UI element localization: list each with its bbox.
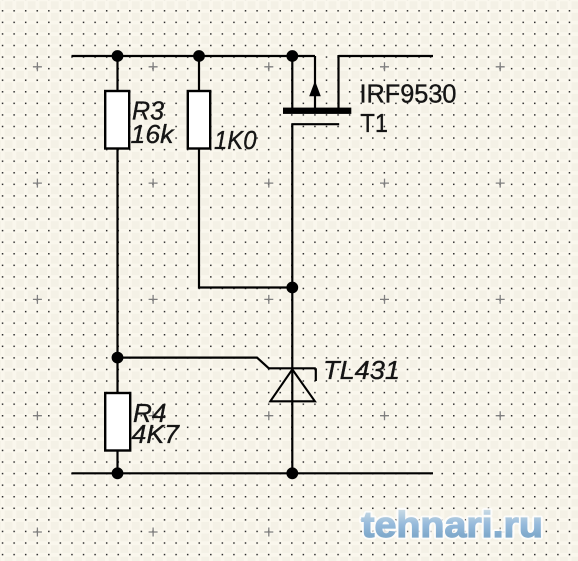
svg-text:T1: T1 (361, 108, 389, 138)
T1 channel bar (283, 108, 351, 114)
node dot top rail R3 (112, 50, 124, 62)
wire drain output horizontal (339, 55, 434, 57)
TL431 cathode bar (269, 367, 316, 369)
svg-text:tehnari.ru: tehnari.ru (361, 504, 543, 545)
T1 substrate arrow (309, 81, 321, 96)
wire R4 bottom lead (116, 450, 118, 473)
wire 1K0 top lead (198, 56, 200, 92)
TL431 cathode hook (315, 368, 317, 381)
svg-text:IRF9530: IRF9530 (360, 79, 457, 109)
node dot top rail 1K0 (193, 50, 205, 62)
wire R3 bottom lead down to node (116, 148, 118, 394)
node dot top rail T1 (286, 50, 298, 62)
resistor R3 (105, 91, 129, 149)
wire bottom return rail (72, 472, 434, 474)
node dot reference junction (112, 352, 124, 364)
wire T1 left stub (291, 56, 293, 108)
wire R3 top lead (116, 56, 118, 92)
resistor 1K0 body (188, 91, 210, 149)
node dot bottom rail R4 (112, 467, 124, 479)
svg-text:16k: 16k (131, 119, 176, 149)
node dot gate junction (286, 282, 298, 294)
wire T1 drain stub (337, 55, 339, 108)
wire T1 source stub (314, 56, 316, 108)
resistor R4 (105, 393, 130, 451)
svg-text:TL431: TL431 (323, 355, 400, 385)
wire gate vertical down to TL431 and bottom rail (291, 124, 293, 473)
T1 gate line (291, 123, 339, 125)
wire top supply rail (72, 55, 316, 57)
svg-text:1K0: 1K0 (214, 125, 257, 155)
transistor Q T1 IRF9530 (283, 55, 351, 124)
TL431 triangle (270, 369, 315, 401)
wire 1K0 bottom lead (199, 148, 292, 288)
wire TL431 reference line (118, 358, 269, 369)
diode/regulator TL431 symbol (269, 368, 316, 401)
svg-text:4K7: 4K7 (132, 419, 181, 449)
node dot bottom rail TL431 (286, 467, 298, 479)
